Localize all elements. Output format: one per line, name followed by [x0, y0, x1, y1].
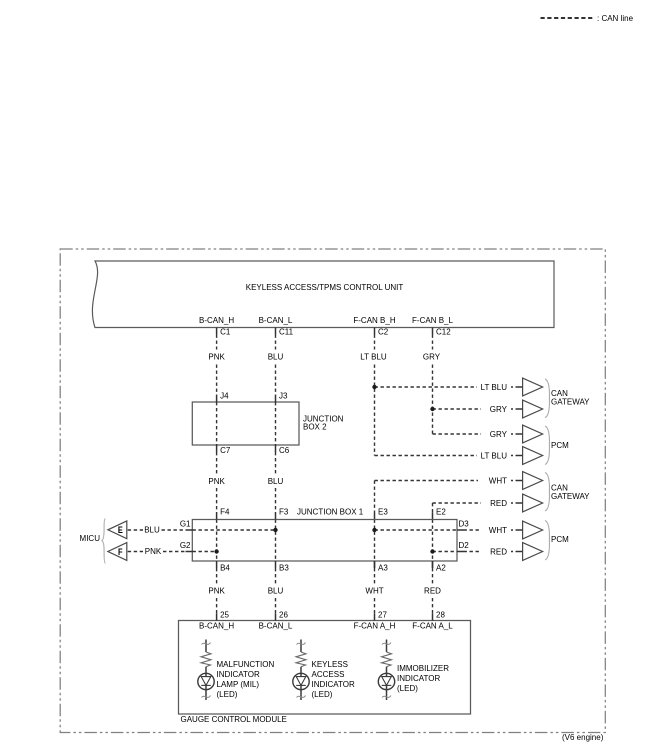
svg-text:F4: F4 — [220, 507, 230, 516]
svg-text:B-CAN_H: B-CAN_H — [199, 622, 234, 631]
svg-text:B-CAN_H: B-CAN_H — [199, 316, 234, 325]
svg-text:26: 26 — [279, 610, 288, 619]
svg-text:RED: RED — [424, 587, 441, 596]
svg-text:INDICATOR: INDICATOR — [312, 680, 355, 689]
svg-text:G2: G2 — [180, 541, 191, 550]
svg-text:28: 28 — [436, 610, 445, 619]
svg-text:C1: C1 — [220, 328, 231, 337]
svg-text:BLU: BLU — [268, 587, 284, 596]
svg-text:PNK: PNK — [208, 587, 225, 596]
svg-text:PCM: PCM — [551, 535, 569, 544]
svg-text:LT BLU: LT BLU — [481, 452, 508, 461]
svg-text:GAUGE CONTROL MODULE: GAUGE CONTROL MODULE — [181, 715, 287, 724]
svg-text:C2: C2 — [378, 328, 389, 337]
svg-text:F: F — [118, 546, 123, 557]
svg-text:(LED): (LED) — [217, 690, 238, 699]
svg-text:: CAN line: : CAN line — [597, 14, 634, 23]
svg-text:PNK: PNK — [208, 353, 225, 362]
svg-text:LT BLU: LT BLU — [481, 383, 508, 392]
svg-text:J3: J3 — [279, 391, 288, 400]
svg-text:ACCESS: ACCESS — [312, 670, 345, 679]
svg-text:C7: C7 — [220, 446, 231, 455]
svg-text:LT BLU: LT BLU — [360, 353, 387, 362]
svg-text:B-CAN_L: B-CAN_L — [259, 316, 293, 325]
svg-text:F-CAN A_H: F-CAN A_H — [354, 622, 396, 631]
svg-text:BOX 2: BOX 2 — [303, 422, 327, 431]
svg-text:GATEWAY: GATEWAY — [551, 398, 590, 407]
svg-text:E3: E3 — [378, 507, 388, 516]
svg-text:(LED): (LED) — [397, 684, 418, 693]
svg-text:KEYLESS: KEYLESS — [312, 660, 348, 669]
svg-text:BLU: BLU — [268, 477, 284, 486]
svg-text:BLU: BLU — [268, 353, 284, 362]
svg-text:GRY: GRY — [423, 353, 441, 362]
svg-text:MALFUNCTION: MALFUNCTION — [217, 660, 275, 669]
svg-text:INDICATOR: INDICATOR — [217, 670, 260, 679]
svg-text:D2: D2 — [459, 541, 470, 550]
svg-text:IMMOBILIZER: IMMOBILIZER — [397, 664, 449, 673]
svg-text:F-CAN B_L: F-CAN B_L — [412, 316, 453, 325]
svg-text:KEYLESS ACCESS/TPMS CONTROL UN: KEYLESS ACCESS/TPMS CONTROL UNIT — [246, 283, 404, 292]
svg-text:LAMP (MIL): LAMP (MIL) — [217, 680, 260, 689]
svg-text:WHT: WHT — [365, 587, 383, 596]
svg-text:A3: A3 — [378, 563, 388, 572]
svg-text:GRY: GRY — [490, 405, 508, 414]
svg-text:G1: G1 — [180, 519, 191, 528]
svg-text:JUNCTION BOX 1: JUNCTION BOX 1 — [297, 507, 364, 516]
svg-text:A2: A2 — [436, 563, 446, 572]
svg-text:BLU: BLU — [144, 526, 160, 535]
svg-text:WHT: WHT — [489, 526, 507, 535]
svg-text:B4: B4 — [220, 563, 230, 572]
svg-text:GRY: GRY — [490, 430, 508, 439]
svg-text:J4: J4 — [220, 391, 229, 400]
svg-text:D3: D3 — [459, 519, 470, 528]
svg-text:B-CAN_L: B-CAN_L — [259, 622, 293, 631]
svg-text:F-CAN B_H: F-CAN B_H — [353, 316, 395, 325]
svg-text:F-CAN A_L: F-CAN A_L — [412, 622, 453, 631]
svg-text:E2: E2 — [436, 507, 446, 516]
svg-text:(V6 engine): (V6 engine) — [562, 733, 604, 742]
svg-text:F3: F3 — [279, 507, 289, 516]
svg-text:(LED): (LED) — [312, 690, 333, 699]
svg-text:27: 27 — [378, 610, 387, 619]
svg-text:C11: C11 — [279, 328, 294, 337]
svg-text:MICU: MICU — [80, 534, 101, 543]
svg-text:RED: RED — [490, 499, 507, 508]
svg-text:PNK: PNK — [145, 547, 162, 556]
svg-text:E: E — [118, 524, 123, 535]
svg-text:C12: C12 — [436, 328, 451, 337]
svg-text:RED: RED — [490, 548, 507, 557]
svg-text:WHT: WHT — [489, 477, 507, 486]
svg-text:C6: C6 — [279, 446, 290, 455]
svg-text:B3: B3 — [279, 563, 289, 572]
svg-text:PNK: PNK — [208, 477, 225, 486]
svg-text:GATEWAY: GATEWAY — [551, 492, 590, 501]
svg-text:25: 25 — [220, 610, 229, 619]
svg-text:PCM: PCM — [551, 441, 569, 450]
svg-text:INDICATOR: INDICATOR — [397, 674, 440, 683]
